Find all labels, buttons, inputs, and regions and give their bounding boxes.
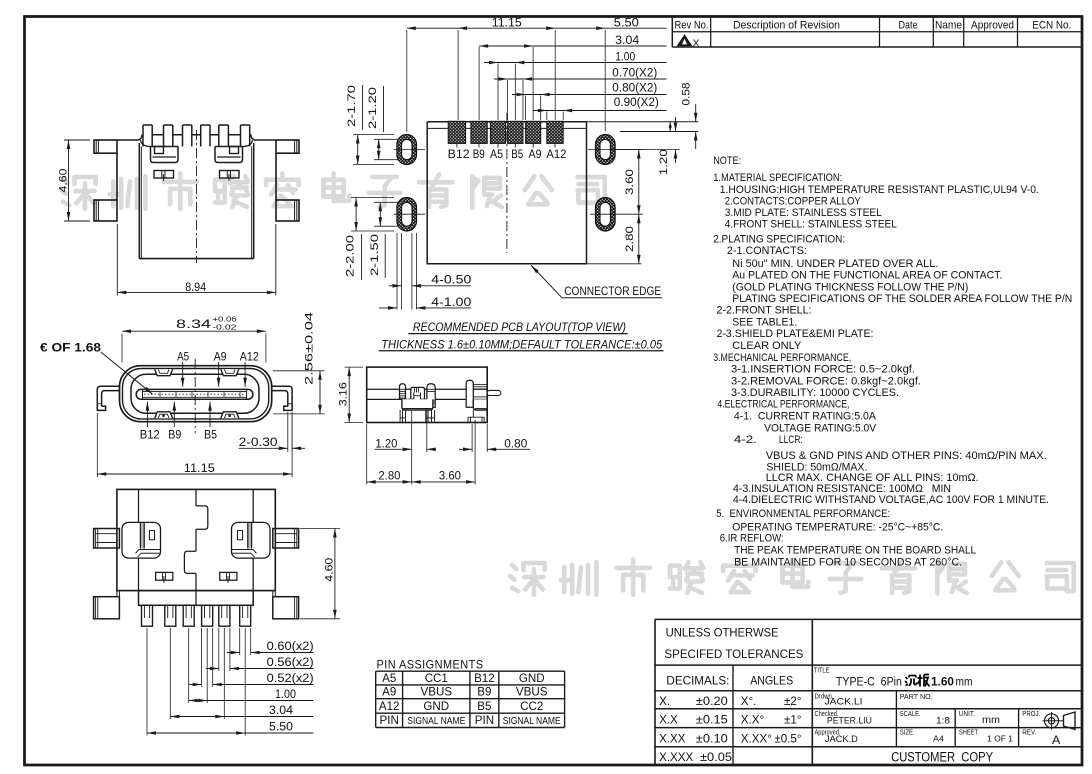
svg-text:B12: B12 [448,149,470,161]
svg-text:A12: A12 [240,349,259,363]
svg-text:8.94: 8.94 [185,280,206,294]
svg-text:4-1. CURRENT RATING:5.0A: 4-1. CURRENT RATING:5.0A [734,411,876,423]
svg-text:±1°: ±1° [784,714,801,727]
svg-text:0.90(X2): 0.90(X2) [614,97,659,109]
svg-text:1.20: 1.20 [375,436,397,450]
svg-text:2-2.00: 2-2.00 [345,235,357,277]
svg-text:5. ENVIRONMENTAL PERFORMANCE:: 5. ENVIRONMENTAL PERFORMANCE: [716,508,890,520]
svg-text:A12: A12 [546,149,566,161]
svg-text:Description of Revision: Description of Revision [733,19,840,31]
svg-text:PART NO.: PART NO. [900,692,933,701]
svg-text:X.XX°: X.XX° [741,733,772,746]
svg-text:5.50: 5.50 [614,17,639,29]
svg-text:4-2.: 4-2. [734,434,757,446]
svg-text:X.XX: X.XX [659,733,686,746]
svg-text:2-3.SHIELD PLATE&EMI PLATE:: 2-3.SHIELD PLATE&EMI PLATE: [717,328,874,340]
svg-text:Approved: Approved [971,19,1014,31]
svg-text:THE PEAK TEMPERATURE ON THE BO: THE PEAK TEMPERATURE ON THE BOARD SHALL [734,545,976,557]
svg-text:3-1.INSERTION FORCE: 0.5~2.0kg: 3-1.INSERTION FORCE: 0.5~2.0kgf. [731,363,915,375]
svg-text:2.80: 2.80 [624,226,636,252]
svg-text:mm: mm [956,675,973,689]
svg-text:1.00: 1.00 [275,689,296,701]
svg-text:0.80(X2): 0.80(X2) [612,83,657,95]
svg-text:2-1.70: 2-1.70 [346,85,358,127]
svg-text:SIGNAL NAME: SIGNAL NAME [407,716,465,727]
svg-text:1.60: 1.60 [931,675,954,689]
svg-text:DECIMALS:: DECIMALS: [666,674,729,688]
svg-text:1.20: 1.20 [658,149,670,175]
svg-text:A5: A5 [382,672,396,685]
svg-text:±0.05: ±0.05 [700,751,732,764]
svg-text:€ OF 1.68: € OF 1.68 [40,341,101,355]
svg-text:±0.20: ±0.20 [696,695,728,708]
svg-text:Ni 50u" MIN. UNDER PLATED OVER: Ni 50u" MIN. UNDER PLATED OVER ALL. [732,258,938,270]
svg-text:X.: X. [659,695,670,708]
svg-text:X°.: X°. [741,695,757,708]
svg-text:Name: Name [935,19,962,31]
svg-text:CC1: CC1 [425,672,448,685]
svg-text:3-2.REMOVAL FORCE: 0.8kgf~2.0k: 3-2.REMOVAL FORCE: 0.8kgf~2.0kgf. [731,375,921,387]
svg-text:Rev No.: Rev No. [675,19,709,31]
svg-text:B5: B5 [511,149,523,161]
svg-text:3.MECHANICAL PERFORMANCE,: 3.MECHANICAL PERFORMANCE, [713,352,851,364]
svg-text:X.X°: X.X° [741,714,764,727]
svg-text:B5: B5 [204,428,217,442]
svg-text:SEE TABLE1.: SEE TABLE1. [732,316,797,328]
svg-text:3.60: 3.60 [624,169,636,195]
svg-text:6.IR REFLOW:: 6.IR REFLOW: [720,533,784,545]
svg-text:PIN ASSIGNMENTS: PIN ASSIGNMENTS [377,658,484,672]
svg-text:2.80: 2.80 [378,469,400,483]
svg-text:3.04: 3.04 [615,35,640,47]
svg-text:2.CONTACTS:COPPER ALLOY: 2.CONTACTS:COPPER ALLOY [725,196,861,208]
svg-text:0.80: 0.80 [504,436,527,450]
svg-text:B5: B5 [477,700,491,713]
svg-text:4.60: 4.60 [323,558,335,582]
svg-text:ANGLES: ANGLES [750,674,793,688]
svg-text:Au PLATED ON THE FUNCTIONAL AR: Au PLATED ON THE FUNCTIONAL AREA OF CONT… [732,270,1002,282]
svg-text:GND: GND [519,672,545,685]
svg-text:A4: A4 [933,734,944,744]
svg-text:A5: A5 [177,349,189,363]
svg-text:11.15: 11.15 [184,461,215,475]
svg-text:ECN No.: ECN No. [1032,19,1071,31]
svg-text:±0.10: ±0.10 [696,733,728,746]
svg-text:2.56±0.04: 2.56±0.04 [303,312,315,385]
svg-text:X.X: X.X [659,714,678,727]
svg-text:3.60: 3.60 [439,469,461,483]
svg-text:2.PLATING SPECIFICATION:: 2.PLATING SPECIFICATION: [713,234,845,246]
svg-text:PIN: PIN [475,714,494,727]
svg-text:1 OF 1: 1 OF 1 [987,734,1013,744]
svg-text:1.MATERIAL SPECIFICATION:: 1.MATERIAL SPECIFICATION: [713,172,842,184]
svg-text:CC2: CC2 [520,700,543,713]
svg-text:1:8: 1:8 [936,715,950,725]
svg-text:0.70(X2): 0.70(X2) [612,68,657,80]
svg-text:JACK.D: JACK.D [825,734,858,744]
svg-text:CLEAR ONLY: CLEAR ONLY [732,340,801,352]
svg-text:±2°: ±2° [784,695,801,708]
svg-text:GND: GND [423,700,449,713]
svg-text:A9: A9 [529,149,542,161]
svg-text:4.ELECTRICAL PERFORMANCE,: 4.ELECTRICAL PERFORMANCE, [717,399,849,411]
svg-text:4-0.50: 4-0.50 [431,275,471,287]
svg-text:mm: mm [982,715,1000,726]
svg-text:Date: Date [899,19,918,31]
svg-text:0.52(x2): 0.52(x2) [267,673,314,685]
svg-text:VOLTAGE RATING:5.0V: VOLTAGE RATING:5.0V [764,423,876,435]
svg-text:3-3.DURABILITY: 10000 CYCLES.: 3-3.DURABILITY: 10000 CYCLES. [731,387,899,399]
svg-text:REV.: REV. [1022,728,1036,737]
svg-text:VBUS & GND PINS AND OTHER PINS: VBUS & GND PINS AND OTHER PINS: 40mΩ/PIN… [766,450,1047,462]
svg-text:PETER.LIU: PETER.LIU [827,715,872,725]
svg-text:0.58: 0.58 [680,83,692,106]
svg-text:2-1.20: 2-1.20 [367,87,379,129]
svg-text:UNLESS OTHERWSE: UNLESS OTHERWSE [666,626,779,640]
svg-text:SPECIFED TOLERANCES: SPECIFED TOLERANCES [664,647,803,661]
svg-text:B9: B9 [477,686,491,699]
svg-text:TITLE.: TITLE. [814,666,831,675]
svg-text:PIN: PIN [380,714,399,727]
svg-text:A9: A9 [382,686,396,699]
svg-text:8.34: 8.34 [176,317,211,331]
svg-text:0.60(x2): 0.60(x2) [267,641,314,653]
svg-text:LLCR:: LLCR: [779,434,803,446]
svg-text:BE MAINTAINED FOR 10 SECONDS A: BE MAINTAINED FOR 10 SECONDS AT 260°C. [734,556,962,568]
svg-text:1.00: 1.00 [615,52,635,64]
svg-text:SIGNAL NAME: SIGNAL NAME [503,716,561,727]
svg-text:SHEET.: SHEET. [959,728,979,737]
svg-text:A12: A12 [379,700,400,713]
svg-text:3.MID PLATE: STAINLESS STEEL: 3.MID PLATE: STAINLESS STEEL [725,207,882,219]
svg-text:UNIT.: UNIT. [959,709,975,718]
svg-text:OPERATING TEMPERATURE: -25°C~+: OPERATING TEMPERATURE: -25°C~+85°C. [732,522,943,534]
svg-text:4-4.DIELECTRIC WITHSTAND VOLTA: 4-4.DIELECTRIC WITHSTAND VOLTAGE,AC 100V… [733,494,1049,506]
svg-text:±0.5°: ±0.5° [774,733,801,746]
svg-text:THICKNESS 1.6±0.10MM;DEFAULT T: THICKNESS 1.6±0.10MM;DEFAULT TOLERANCE:±… [381,337,662,351]
svg-text:CUSTOMER COPY: CUSTOMER COPY [891,749,993,764]
svg-text:2-2.FRONT SHELL:: 2-2.FRONT SHELL: [717,305,812,317]
svg-text:PLATING SPECIFICATIONS OF THE: PLATING SPECIFICATIONS OF THE SOLDER ARE… [732,293,1072,305]
svg-text:±0.15: ±0.15 [696,714,728,727]
svg-text:2-1.CONTACTS:: 2-1.CONTACTS: [727,245,807,257]
svg-text:4.FRONT SHELL: STAINLESS STEEL: 4.FRONT SHELL: STAINLESS STEEL [725,219,897,231]
svg-text:X: X [693,37,700,49]
svg-text:A5: A5 [490,149,503,161]
svg-text:5.50: 5.50 [269,722,293,734]
svg-text:SCALE.: SCALE. [900,709,921,718]
svg-text:B9: B9 [473,149,485,161]
svg-text:0.56(x2): 0.56(x2) [267,657,314,669]
svg-text:X.XXX: X.XXX [659,751,693,764]
svg-text:11.15: 11.15 [492,17,522,29]
svg-text:RECOMMENDED PCB LAYOUT(TOP VIE: RECOMMENDED PCB LAYOUT(TOP VIEW) [413,320,626,334]
svg-text:VBUS: VBUS [421,686,453,699]
svg-text:2-1.50: 2-1.50 [369,234,381,276]
svg-text:2-0.30: 2-0.30 [239,435,278,449]
svg-text:1.HOUSING:HIGH TEMPERATURE RES: 1.HOUSING:HIGH TEMPERATURE RESISTANT PLA… [720,184,1039,196]
svg-text:TYPE-C 6Pin: TYPE-C 6Pin [836,675,902,689]
svg-text:-0.02: -0.02 [213,323,237,332]
svg-text:4.60: 4.60 [58,169,70,193]
svg-text:A9: A9 [214,349,227,363]
svg-text:NOTE:: NOTE: [713,155,741,167]
svg-text:VBUS: VBUS [516,686,548,699]
svg-text:3.04: 3.04 [269,705,294,717]
svg-text:SIZE.: SIZE. [900,728,915,737]
svg-text:B12: B12 [474,672,495,685]
svg-text:3.16: 3.16 [338,382,350,406]
svg-text:B9: B9 [168,428,181,442]
svg-text:B12: B12 [140,428,160,442]
svg-text:(GOLD PLATING THICKNESS FOLLOW: (GOLD PLATING THICKNESS FOLLOW THE P/N) [732,282,968,294]
svg-text:A: A [1052,733,1061,747]
svg-text:CONNECTOR EDGE: CONNECTOR EDGE [564,284,661,298]
svg-text:4-1.00: 4-1.00 [431,297,471,309]
svg-text:JACK.LI: JACK.LI [825,697,863,707]
svg-text:PROJ.: PROJ. [1022,709,1040,718]
